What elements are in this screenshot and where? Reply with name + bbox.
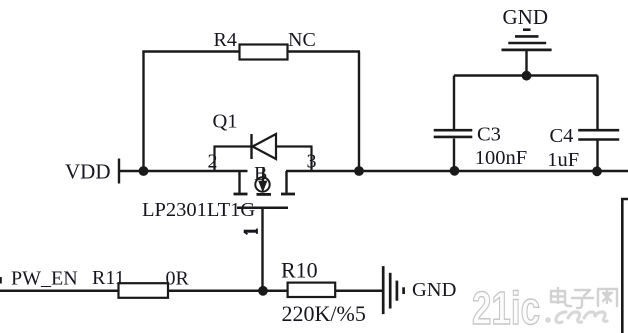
wire: pin 3 lead down to rail: [310, 147, 312, 172]
svg-text:LP2301LT1G: LP2301LT1G: [142, 199, 255, 221]
junction dot at VDD node: [139, 166, 149, 176]
watermark 21ic.com logo: [472, 282, 617, 333]
svg-text:NC: NC: [288, 29, 316, 51]
label R11: [92, 267, 125, 289]
wire: R4 feedback loop left vertical: [142, 51, 144, 172]
wire: bottom rail left of R11: [0, 290, 119, 293]
value 0R: [166, 268, 190, 290]
svg-text:3: 3: [307, 151, 317, 173]
capacitor C4 plates: [578, 130, 619, 139]
label LP2301LT1G: [142, 199, 255, 221]
resistor R10 body: [288, 283, 336, 297]
label NC: [288, 29, 316, 51]
svg-text:GND: GND: [412, 279, 456, 301]
wire: C3 upper lead: [453, 76, 455, 130]
wire: main rail left segment (VDD to Q1 drain): [119, 170, 248, 172]
junction dot C4 to rail: [592, 166, 602, 176]
svg-text:R11: R11: [92, 267, 125, 289]
transistor Q1 body diode cathode bar: [250, 134, 252, 159]
transistor Q1 bulk circle: [255, 177, 269, 191]
wire: C3 lower lead: [453, 139, 455, 172]
wire: pin 2 lead down to rail: [213, 147, 215, 172]
capacitor C3 plates: [434, 130, 473, 137]
ground symbol top (inverted earth): [502, 30, 552, 50]
junction dot C3 to rail: [450, 166, 460, 176]
junction dot gate lead to bottom rail: [258, 286, 268, 296]
label C3: [477, 124, 501, 146]
wire: ground stem: [525, 50, 527, 76]
wire: capacitor top rail: [454, 74, 598, 76]
transistor Q1 bulk label B: [254, 163, 267, 185]
svg-text:R4: R4: [214, 29, 237, 51]
transistor Q1 bulk contact bar: [257, 193, 272, 196]
label VDD: [65, 160, 111, 184]
pin number 2: [208, 151, 218, 173]
transistor Q1 source contact stub: [285, 171, 287, 193]
wire: top wire right of R4: [288, 50, 361, 52]
resistor R11 body: [119, 283, 169, 298]
wire: gate lead down to bottom rail: [261, 208, 263, 291]
resistor R4 body: [240, 45, 288, 60]
junction dot ground to cap rail: [522, 71, 532, 81]
ground symbol right (sideways earth): [383, 266, 403, 314]
svg-text:21ic: 21ic: [472, 282, 540, 333]
connector fragment at right edge: [622, 199, 628, 333]
svg-text:GND: GND: [503, 5, 549, 29]
wire: C4 lower lead: [596, 140, 598, 172]
value 1uF: [547, 149, 579, 171]
pin number 3: [307, 151, 317, 173]
transistor Q1 body diode wire left: [214, 145, 252, 147]
svg-text:2: 2: [208, 151, 218, 173]
label Q1: [213, 111, 238, 133]
net stub at left edge: [0, 277, 2, 284]
wire: C4 upper lead: [596, 76, 598, 130]
svg-text:220K/%5: 220K/%5: [282, 301, 366, 326]
svg-text:VDD: VDD: [65, 160, 111, 184]
pin number 1 (rotated): [244, 229, 258, 235]
junction dot R4 loop to rail: [354, 166, 364, 176]
value 220K/%5: [282, 301, 366, 326]
label C4: [550, 125, 574, 147]
wire: main rail right segment (Q1 source to right edge): [286, 170, 628, 172]
svg-text:1uF: 1uF: [547, 149, 579, 171]
svg-text:0R: 0R: [166, 268, 190, 290]
wire: VDD port tick: [118, 159, 120, 184]
wire: bottom rail R11 to R10: [168, 290, 288, 293]
label GND top: [503, 5, 549, 29]
svg-text:R10: R10: [281, 258, 318, 283]
wire: R10 to ground: [335, 290, 383, 293]
wire: R4 loop right vertical: [358, 52, 360, 172]
transistor Q1 bulk arrow: [258, 167, 267, 193]
label GND bottom: [412, 279, 456, 301]
transistor Q1 gate bar: [237, 206, 288, 209]
svg-text:Q1: Q1: [213, 111, 238, 133]
transistor Q1 body diode triangle: [253, 134, 277, 159]
svg-text:100nF: 100nF: [475, 147, 527, 169]
label R4: [214, 29, 237, 51]
transistor Q1 body diode wire right: [276, 145, 313, 147]
value 100nF: [475, 147, 527, 169]
svg-text:C3: C3: [477, 124, 501, 146]
transistor Q1 drain contact stub: [238, 171, 240, 193]
label PW_EN: [11, 268, 78, 290]
transistor Q1 source contact bar: [281, 193, 295, 196]
wire: top wire left of R4: [142, 50, 240, 52]
svg-text:PW_EN: PW_EN: [11, 268, 78, 290]
transistor Q1 drain contact bar: [234, 193, 248, 196]
label R10: [281, 258, 318, 283]
svg-text:C4: C4: [550, 125, 574, 147]
